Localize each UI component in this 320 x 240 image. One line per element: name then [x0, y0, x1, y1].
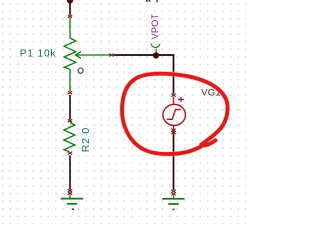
annotation red loop around VG1: [122, 74, 228, 154]
pin marks above left ground: [68, 189, 72, 195]
pin marks above right ground: [171, 190, 175, 196]
pin mark P1 bottom: [68, 91, 72, 94]
ground (right): [162, 195, 184, 209]
top edge marks (cropped label above): [146, 0, 148, 2]
wiper arrow of P1: [76, 54, 111, 56]
wire (dark, wiper to VG1 with corner): [114, 55, 174, 94]
wiper marker o of P1: [78, 68, 83, 73]
pin mark VG1 top: [171, 94, 175, 97]
voltage pin VPOT (green hook): [151, 43, 160, 47]
node VPOT (junction dot): [153, 52, 159, 58]
svg-text:R2 0: R2 0: [80, 127, 92, 152]
svg-text:VPOT: VPOT: [150, 13, 160, 39]
pin mark at P1 wiper wire: [109, 54, 113, 57]
generator VG1: [163, 97, 186, 135]
svg-text:P1 10k: P1 10k: [20, 48, 57, 59]
wire (maroon, top to P1): [69, 2, 71, 15]
wire (dark, VG1 to ground): [173, 135, 175, 190]
pin mark R2 bottom: [68, 152, 72, 155]
node A (top junction dot, cut by top edge): [67, 0, 73, 3]
wire (maroon, R2 to ground): [69, 155, 71, 189]
ground (left): [61, 195, 83, 210]
pin marks VG1 bottom: [171, 129, 175, 135]
wire (maroon, P1 to R2): [69, 95, 71, 120]
pin mark P1 top: [68, 15, 72, 18]
potentiometer P1: [64, 17, 110, 91]
plus sign of VG1: [178, 97, 184, 102]
pin mark R2 top: [68, 119, 72, 122]
resistor R2: [64, 123, 75, 152]
